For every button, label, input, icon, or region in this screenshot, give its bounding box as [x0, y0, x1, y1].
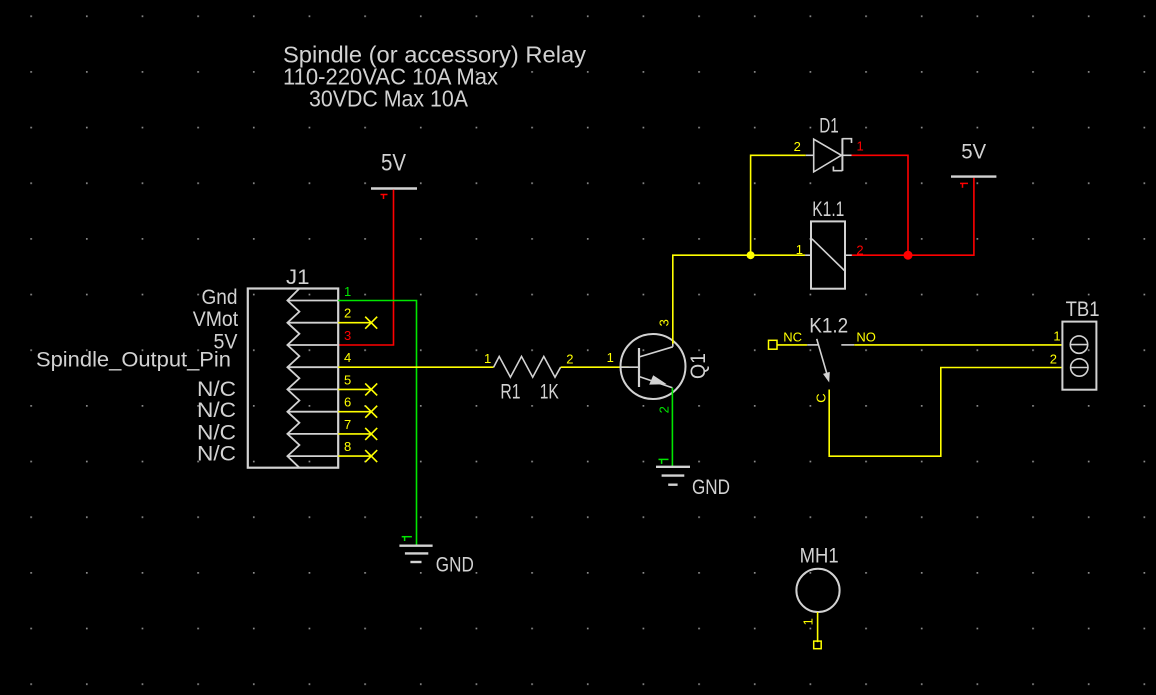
- svg-text:1K: 1K: [540, 381, 559, 404]
- svg-text:TB1: TB1: [1066, 298, 1100, 321]
- connector J1: [248, 266, 338, 468]
- svg-text:3: 3: [657, 319, 672, 326]
- svg-text:Gnd: Gnd: [202, 286, 238, 309]
- svg-text:1: 1: [1053, 329, 1060, 344]
- ground GND (left): [399, 537, 473, 577]
- transistor Q1: [607, 319, 710, 413]
- svg-text:8: 8: [344, 439, 351, 454]
- wire K1.1 pin2 to 5V (red): [852, 178, 974, 256]
- svg-text:1: 1: [607, 350, 614, 365]
- wire D1 anode to junction (yellow): [751, 155, 806, 255]
- wire J1 pin1 to GND (green): [338, 301, 416, 546]
- terminal block TB1: [1050, 298, 1100, 390]
- svg-text:30VDC Max 10A: 30VDC Max 10A: [309, 86, 468, 112]
- wire D1 cathode to 5V net (red): [852, 155, 909, 255]
- wire K1.2 C to TB1 pin2 (yellow): [829, 368, 1062, 457]
- junction (yellow): [747, 251, 755, 259]
- svg-text:MH1: MH1: [800, 545, 839, 568]
- svg-text:GND: GND: [436, 554, 474, 577]
- svg-text:Q1: Q1: [687, 353, 710, 379]
- svg-text:K1.2: K1.2: [809, 315, 848, 338]
- svg-text:N/C: N/C: [197, 399, 236, 422]
- svg-text:1: 1: [800, 618, 815, 625]
- svg-text:2: 2: [1050, 352, 1057, 367]
- svg-text:5V: 5V: [381, 150, 406, 177]
- svg-text:R1: R1: [500, 381, 520, 404]
- svg-text:Spindle_Output_Pin: Spindle_Output_Pin: [36, 349, 231, 372]
- svg-text:1: 1: [796, 242, 803, 257]
- wire R1 to Q1 base (yellow): [561, 366, 629, 368]
- svg-text:4: 4: [344, 350, 351, 365]
- diode D1: [794, 114, 864, 172]
- svg-text:1: 1: [484, 351, 491, 366]
- svg-text:1: 1: [857, 139, 864, 154]
- svg-text:N/C: N/C: [197, 443, 236, 466]
- wire Q1 emitter to GND (green): [671, 388, 673, 466]
- svg-text:NC: NC: [783, 330, 802, 345]
- svg-text:2: 2: [344, 305, 351, 320]
- mounting hole MH1: [796, 545, 839, 649]
- power symbol 5V (left): [371, 150, 417, 200]
- resistor R1: [484, 351, 573, 404]
- svg-text:3: 3: [344, 328, 351, 343]
- svg-text:1: 1: [344, 284, 351, 299]
- wire Q1 collector up (yellow): [673, 255, 805, 344]
- svg-text:D1: D1: [819, 114, 839, 137]
- svg-text:5V: 5V: [961, 140, 986, 163]
- svg-text:J1: J1: [286, 266, 310, 289]
- svg-text:N/C: N/C: [197, 421, 236, 444]
- svg-text:K1.1: K1.1: [812, 198, 844, 221]
- wire K1.2 NO to TB1 pin1 (yellow): [854, 344, 1062, 346]
- power symbol 5V (right): [951, 140, 996, 187]
- svg-text:N/C: N/C: [197, 378, 236, 401]
- J1 pin numbers: [344, 284, 351, 454]
- svg-text:VMot: VMot: [193, 308, 239, 331]
- svg-text:2: 2: [657, 406, 672, 413]
- wire 5V to J1 pin3 (red): [338, 190, 393, 345]
- J1 pin names: [36, 286, 238, 466]
- svg-text:6: 6: [344, 395, 351, 410]
- ground GND (Q1): [656, 459, 730, 499]
- svg-text:2: 2: [566, 352, 573, 367]
- svg-text:7: 7: [344, 417, 351, 432]
- junction (red): [904, 251, 913, 260]
- svg-text:5: 5: [344, 372, 351, 387]
- J1 no-connect stubs and X marks: [338, 317, 377, 462]
- wire J1 pin4 to R1 (yellow): [338, 366, 493, 368]
- svg-text:2: 2: [794, 139, 801, 154]
- title text: [283, 42, 586, 112]
- svg-text:GND: GND: [692, 476, 730, 499]
- relay contact K1.2: [769, 315, 876, 403]
- svg-text:NO: NO: [856, 330, 876, 345]
- svg-text:C: C: [813, 393, 828, 402]
- relay coil K1.1: [796, 198, 864, 289]
